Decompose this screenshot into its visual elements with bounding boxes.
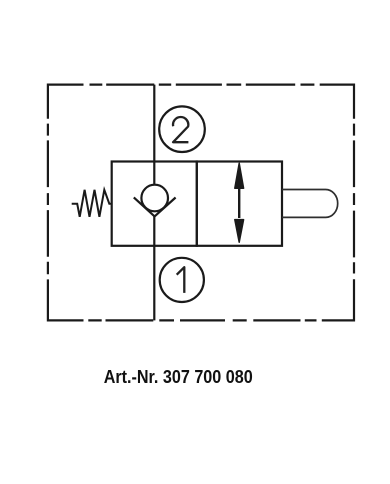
svg-text:Art.-Nr. 307 700 080: Art.-Nr. 307 700 080 xyxy=(104,367,253,387)
